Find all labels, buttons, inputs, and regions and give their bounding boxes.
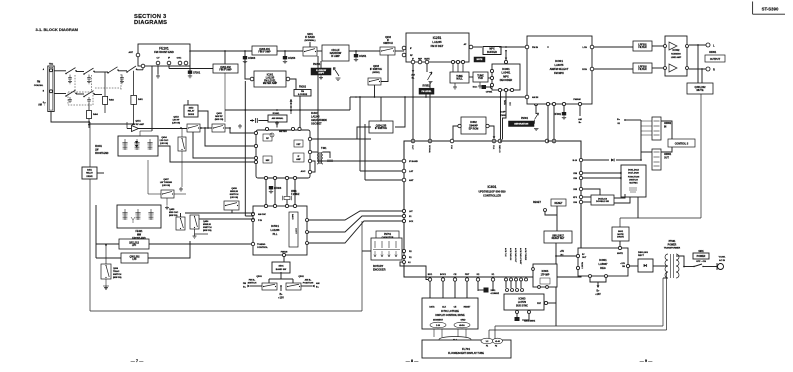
- svg-text:CE: CE: [453, 274, 457, 276]
- svg-text:CV: CV: [156, 58, 160, 60]
- svg-text:ST-S390: ST-S390: [762, 6, 779, 11]
- svg-text:PT901: PT901: [669, 241, 676, 243]
- svg-text:FM IF DET: FM IF DET: [431, 44, 444, 48]
- svg-text:LPF: LPF: [132, 245, 137, 247]
- svg-text:LA1235: LA1235: [432, 40, 442, 44]
- svg-text:ACB DATA OUT: ACB DATA OUT: [514, 248, 517, 263]
- svg-text:Q451: Q451: [135, 120, 141, 123]
- svg-text:LPF: LPF: [132, 259, 137, 261]
- svg-text:Q452: Q452: [216, 112, 222, 115]
- svg-text:ACB DATA IN: ACB DATA IN: [509, 248, 512, 261]
- svg-text:+13V: +13V: [595, 294, 601, 296]
- svg-text:IC801: IC801: [599, 258, 607, 262]
- svg-text:AM B+: AM B+: [305, 279, 313, 282]
- svg-text:LINE AMP: LINE AMP: [671, 56, 682, 59]
- svg-text:IC302: IC302: [673, 48, 680, 52]
- svg-text:FILTER: FILTER: [638, 46, 646, 49]
- svg-text:BAND: BAND: [291, 214, 294, 220]
- svg-text:(LW ON): (LW ON): [172, 123, 180, 125]
- svg-text:(LW ON): (LW ON): [230, 197, 238, 199]
- svg-text:D601-D614: D601-D614: [628, 169, 639, 172]
- svg-text:RESET: RESET: [555, 202, 564, 205]
- svg-text:Q455: Q455: [169, 208, 175, 211]
- svg-text:GRID: GRID: [461, 320, 467, 322]
- svg-text:SHIFT: SHIFT: [318, 73, 325, 75]
- svg-text:LW TUNING: LW TUNING: [160, 182, 173, 184]
- svg-text:TUNING: TUNING: [257, 244, 266, 246]
- svg-text:MW OSC: MW OSC: [169, 212, 179, 214]
- svg-text:IC251: IC251: [433, 36, 442, 40]
- svg-text:LW RF AMP: LW RF AMP: [132, 123, 145, 126]
- svg-text:4.19MHZ: 4.19MHZ: [491, 292, 500, 295]
- svg-text:CF251: CF251: [359, 55, 367, 58]
- svg-text:FUNCTION: FUNCTION: [628, 177, 640, 179]
- svg-text:S801,D817: S801,D817: [552, 235, 564, 237]
- svg-text:(NORMAL): (NORMAL): [304, 39, 315, 42]
- svg-text:CF201: CF201: [193, 72, 201, 75]
- svg-text:SEGMENT: SEGMENT: [433, 320, 444, 322]
- svg-text:RV202: RV202: [299, 87, 307, 89]
- svg-text:MUTE: MUTE: [617, 234, 624, 236]
- svg-text:Drive: Drive: [473, 87, 478, 89]
- svg-text:LC7570: LC7570: [518, 302, 527, 304]
- svg-text:SWITCH: SWITCH: [230, 194, 239, 196]
- svg-text:ANT: ANT: [129, 51, 134, 54]
- svg-text:AM SIGNAL: AM SIGNAL: [272, 117, 284, 120]
- svg-text:FM/AM: FM/AM: [573, 98, 580, 101]
- svg-text:F IN: F IN: [258, 220, 262, 222]
- svg-text:CLK: CLK: [492, 145, 494, 150]
- svg-text:METER: METER: [279, 131, 287, 133]
- svg-text:75Ω: 75Ω: [49, 64, 53, 66]
- svg-text:+13V: +13V: [620, 263, 625, 265]
- svg-text:CONTROLLER: CONTROLLER: [483, 194, 501, 198]
- svg-text:CONTROL: CONTROL: [257, 247, 268, 249]
- svg-text:ANT: ANT: [409, 179, 414, 182]
- svg-text:FM B+: FM B+: [249, 280, 256, 282]
- svg-text:IF AMP: IF AMP: [331, 55, 340, 58]
- svg-text:DECODER: DECODER: [500, 79, 513, 82]
- svg-text:LA5667: LA5667: [599, 263, 609, 266]
- svg-text:PBT: PBT: [465, 274, 470, 276]
- svg-text:TRIAC: TRIAC: [113, 270, 120, 273]
- svg-text:NJM4560: NJM4560: [671, 53, 681, 56]
- svg-text:AM/FM SELECT: AM/FM SELECT: [550, 68, 569, 71]
- svg-text:S.CURVE: S.CURVE: [298, 94, 308, 96]
- svg-text:DOUBLE SW: DOUBLE SW: [596, 201, 609, 203]
- svg-text:FD451: FD451: [95, 145, 103, 148]
- svg-text:BAND SW: BAND SW: [276, 268, 287, 271]
- svg-text:FL701: FL701: [462, 347, 471, 351]
- svg-text:METER AMP: METER AMP: [263, 82, 278, 85]
- svg-text:THD: THD: [478, 77, 483, 80]
- svg-text:IF SWITCH: IF SWITCH: [375, 127, 387, 130]
- svg-text:FM: FM: [37, 82, 40, 84]
- svg-text:FM IF AMP: FM IF AMP: [258, 51, 271, 54]
- svg-text:IC701 LC7511E: IC701 LC7511E: [441, 310, 459, 313]
- svg-text:FM MPX: FM MPX: [554, 72, 564, 75]
- svg-text:RELAY: RELAY: [188, 110, 195, 113]
- svg-text:MATRIX: MATRIX: [629, 182, 638, 185]
- svg-text:AMP: AMP: [296, 158, 301, 161]
- svg-text:CF801: CF801: [486, 92, 493, 94]
- svg-text:MUTE: MUTE: [696, 89, 703, 92]
- svg-text:— 7 —: — 7 —: [131, 358, 143, 363]
- svg-text:NULL: NULL: [456, 78, 463, 81]
- svg-text:LCH: LCH: [583, 47, 588, 49]
- svg-text:SECTION 3: SECTION 3: [134, 14, 167, 20]
- svg-text:SIGNAL: SIGNAL: [428, 145, 431, 154]
- svg-text:+13V: +13V: [278, 297, 284, 300]
- svg-text:BD1: BD1: [428, 274, 433, 276]
- svg-text:Q457: Q457: [163, 178, 169, 181]
- svg-text:ACB CLK: ACB CLK: [504, 248, 507, 257]
- svg-text:SCK: SCK: [409, 221, 414, 223]
- svg-text:— 8 —: — 8 —: [406, 358, 418, 363]
- svg-text:CN301: CN301: [709, 52, 717, 54]
- svg-text:EP ROM: EP ROM: [469, 128, 478, 131]
- svg-text:AGC: AGC: [301, 170, 306, 173]
- svg-text:Q456: Q456: [203, 220, 209, 223]
- svg-text:DRIVE: DRIVE: [188, 114, 195, 116]
- svg-text:LAT: LAT: [409, 170, 414, 173]
- svg-text:LA3401: LA3401: [502, 72, 512, 75]
- svg-text:DATA: DATA: [429, 305, 435, 308]
- svg-text:FM: FM: [243, 283, 246, 285]
- svg-text:SWITCH: SWITCH: [248, 283, 257, 285]
- svg-text:SWITCH: SWITCH: [629, 180, 638, 182]
- svg-text:IF BAND: IF BAND: [409, 160, 418, 163]
- svg-text:T401: T401: [321, 147, 327, 150]
- svg-text:MW RF: MW RF: [215, 116, 223, 118]
- svg-text:FILTER: FILTER: [638, 68, 646, 71]
- svg-text:POWER: POWER: [697, 256, 706, 258]
- svg-text:CF253: CF253: [288, 57, 296, 60]
- svg-text:S=SP: S=SP: [500, 112, 506, 114]
- svg-text:AC IN: AC IN: [719, 259, 725, 262]
- svg-text:RESET: RESET: [581, 262, 583, 269]
- svg-text:RV301: RV301: [521, 118, 529, 120]
- svg-text:COAXIAL: COAXIAL: [34, 84, 44, 87]
- svg-text:BUS SYNC: BUS SYNC: [516, 306, 528, 308]
- svg-text:RV351: RV351: [423, 86, 431, 88]
- svg-text:CF903: CF903: [248, 57, 256, 60]
- svg-text:RCH: RCH: [582, 69, 587, 71]
- svg-text:Q454: Q454: [161, 136, 167, 139]
- svg-text:IC802: IC802: [500, 115, 506, 117]
- svg-text:CF301: CF301: [554, 113, 562, 116]
- svg-text:BCK1: BCK1: [440, 274, 447, 276]
- svg-text:17P IMP: 17P IMP: [541, 275, 550, 277]
- svg-text:Q511,512: Q511,512: [129, 242, 140, 244]
- svg-text:MUTE: MUTE: [477, 59, 483, 61]
- svg-text:X801: X801: [491, 290, 497, 292]
- svg-text:IC604: IC604: [542, 270, 549, 273]
- svg-text:Q506: Q506: [113, 268, 119, 270]
- svg-text:S501: S501: [278, 266, 284, 268]
- svg-text:S601: S601: [618, 231, 624, 233]
- svg-text:OFF→ON: OFF→ON: [696, 261, 706, 263]
- svg-text:FM IF AMP: FM IF AMP: [219, 69, 232, 72]
- svg-text:CF403: CF403: [274, 187, 282, 190]
- svg-text:48-5A: 48-5A: [459, 324, 465, 327]
- svg-text:FM IN: FM IN: [532, 47, 538, 49]
- svg-text:DISPLAY CONTROL DRIVE: DISPLAY CONTROL DRIVE: [435, 314, 465, 317]
- svg-text:MW/LW: MW/LW: [203, 224, 212, 226]
- svg-text:IC301: IC301: [555, 59, 563, 63]
- svg-text:DB01,803: DB01,803: [638, 252, 649, 254]
- svg-text:3-1. BLOCK DIAGRAM: 3-1. BLOCK DIAGRAM: [36, 27, 79, 32]
- svg-text:CONT: CONT: [295, 228, 297, 234]
- svg-text:RECT: RECT: [638, 255, 645, 257]
- svg-text:DIAGRAMS: DIAGRAMS: [134, 20, 167, 26]
- svg-text:IC901: IC901: [502, 67, 510, 71]
- svg-text:VC901: VC901: [719, 257, 726, 259]
- svg-text:(LW ON): (LW ON): [160, 143, 168, 145]
- svg-text:CONTROL S: CONTROL S: [675, 144, 689, 146]
- svg-text:(WIDE): (WIDE): [372, 72, 379, 74]
- svg-text:CN601: CN601: [664, 154, 672, 156]
- svg-text:Q501,502: Q501,502: [129, 256, 140, 258]
- svg-text:FM: FM: [301, 91, 304, 93]
- svg-text:MUTE: MUTE: [617, 253, 623, 255]
- svg-text:ACB DATA START: ACB DATA START: [519, 248, 522, 265]
- svg-text:(MW ON): (MW ON): [215, 119, 224, 121]
- svg-text:LA1266: LA1266: [271, 229, 281, 232]
- svg-text:1-2: 1-2: [486, 341, 489, 343]
- svg-text:(MW ON): (MW ON): [203, 230, 212, 232]
- svg-text:OSC: OSC: [177, 58, 182, 60]
- svg-text:AM OSC: AM OSC: [258, 213, 267, 216]
- svg-text:AM: AM: [316, 282, 320, 285]
- svg-text:X803 4MHZ: X803 4MHZ: [524, 320, 536, 323]
- svg-text:RELAY: RELAY: [86, 172, 93, 175]
- svg-text:(MW ON): (MW ON): [113, 277, 122, 279]
- svg-text:OUTPUT: OUTPUT: [710, 58, 721, 61]
- svg-text:LW OSC: LW OSC: [160, 140, 169, 142]
- svg-text:MUTE: MUTE: [424, 58, 430, 60]
- svg-text:DRIVE: DRIVE: [617, 236, 624, 238]
- svg-text:SWITCH: SWITCH: [203, 227, 212, 229]
- svg-text:OSC/DET: OSC/DET: [311, 123, 322, 126]
- svg-text:POWER: POWER: [668, 244, 677, 246]
- svg-text:OUT: OUT: [411, 145, 413, 150]
- svg-text:PLL: PLL: [273, 233, 278, 236]
- svg-text:BUFFER: BUFFER: [487, 51, 497, 54]
- svg-text:SEPARATION: SEPARATION: [514, 123, 528, 126]
- svg-text:DRIVE: DRIVE: [86, 176, 93, 178]
- svg-text:ACB POWER: ACB POWER: [524, 248, 527, 261]
- svg-text:FE101: FE101: [159, 47, 169, 51]
- svg-text:Q453: Q453: [173, 116, 179, 119]
- svg-text:IC601: IC601: [487, 185, 496, 189]
- svg-text:(LW ON): (LW ON): [162, 185, 170, 187]
- svg-text:— 9 —: — 9 —: [640, 358, 652, 363]
- svg-text:RESET: RESET: [533, 201, 542, 204]
- svg-text:CLK: CLK: [442, 306, 447, 308]
- svg-text:UPD78512GF-306-3B9: UPD78512GF-306-3B9: [478, 190, 506, 194]
- svg-text:Q458: Q458: [231, 187, 237, 190]
- svg-text:LA3375: LA3375: [555, 64, 565, 67]
- svg-text:LW RF: LW RF: [173, 120, 180, 122]
- svg-text:7.2MHZ: 7.2MHZ: [291, 193, 300, 196]
- svg-text:POSITION: POSITION: [303, 283, 314, 285]
- svg-text:Q503: Q503: [256, 276, 262, 278]
- svg-text:RESET: RESET: [464, 306, 471, 308]
- svg-text:IN: IN: [664, 127, 667, 129]
- svg-text:REG: REG: [600, 267, 605, 270]
- svg-text:FE421: FE421: [135, 230, 143, 233]
- svg-text:SWITCH: SWITCH: [113, 274, 122, 276]
- svg-text:41-48: 41-48: [495, 340, 500, 343]
- svg-text:FRONT-END: FRONT-END: [95, 153, 109, 155]
- svg-text:TRANSFORMER: TRANSFORMER: [664, 247, 681, 250]
- svg-text:RBD-IO: RBD-IO: [498, 145, 500, 153]
- svg-text:IC501: IC501: [271, 224, 279, 228]
- svg-text:Q502: Q502: [298, 276, 304, 278]
- svg-text:OUT: OUT: [664, 158, 669, 160]
- svg-text:FLUORESCENT DISPLAY TUBE: FLUORESCENT DISPLAY TUBE: [448, 352, 484, 355]
- svg-text:IF SWITCH: IF SWITCH: [370, 68, 382, 71]
- svg-text:+5V: +5V: [560, 251, 565, 253]
- svg-text:IC803: IC803: [519, 297, 526, 301]
- svg-text:D617-D620: D617-D620: [628, 173, 639, 175]
- svg-text:IF BAND: IF BAND: [305, 36, 315, 39]
- svg-text:FM/AM: FM/AM: [281, 251, 288, 254]
- svg-text:AM IN: AM IN: [532, 96, 539, 99]
- svg-text:DATA: DATA: [503, 100, 506, 105]
- svg-text:RV701: RV701: [384, 234, 392, 236]
- svg-text:RESET SET: RESET SET: [552, 238, 565, 240]
- svg-text:AM: AM: [38, 103, 42, 106]
- svg-text:R: R: [713, 68, 715, 72]
- svg-text:FM LEVEL: FM LEVEL: [422, 91, 433, 93]
- svg-text:MW/LW: MW/LW: [230, 191, 239, 193]
- svg-text:ENCODER: ENCODER: [373, 269, 386, 272]
- svg-text:RV201: RV201: [313, 63, 321, 66]
- svg-text:FM FRONT-END: FM FRONT-END: [154, 50, 174, 54]
- svg-text:SWITCH: SWITCH: [383, 42, 393, 45]
- svg-text:AM: AM: [578, 118, 582, 121]
- svg-text:CN602: CN602: [664, 123, 672, 125]
